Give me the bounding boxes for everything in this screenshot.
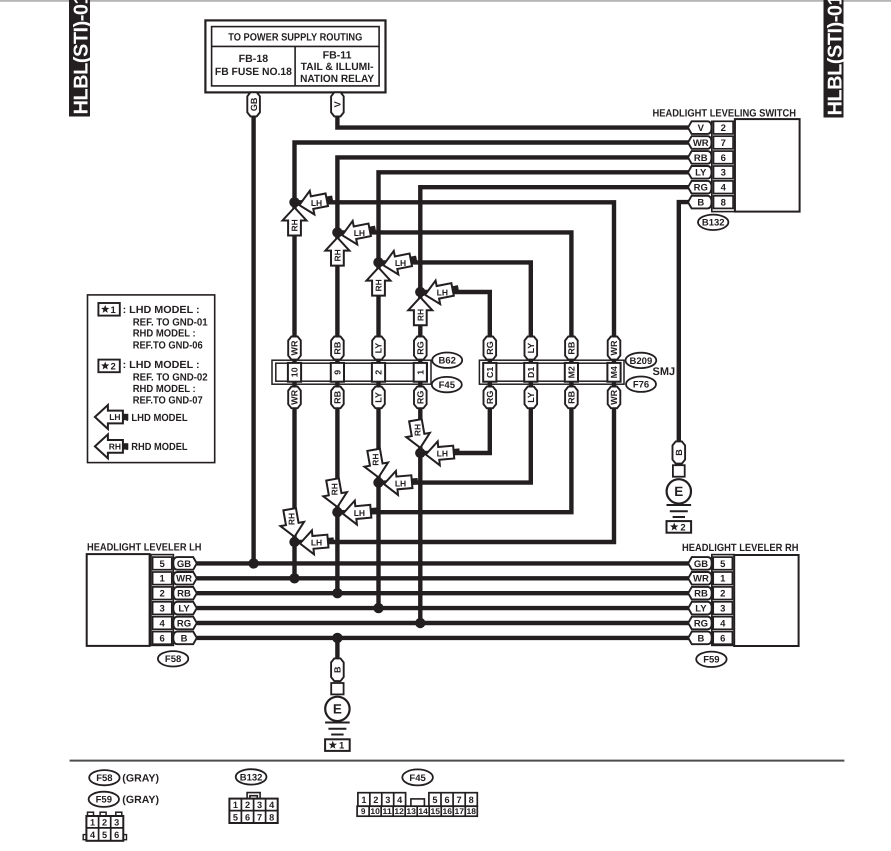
svg-text:2: 2 [373,795,378,805]
svg-text:6: 6 [720,633,725,644]
svg-text:LH: LH [109,412,120,422]
svg-text:4: 4 [397,795,403,805]
svg-text:5: 5 [233,812,238,822]
svg-text:15: 15 [430,807,440,816]
svg-text:LH: LH [395,478,406,488]
svg-text:17: 17 [455,807,465,816]
svg-text:HLBL(STI)-01: HLBL(STI)-01 [825,0,847,116]
svg-text:1: 1 [720,574,726,585]
svg-text:3: 3 [385,795,390,805]
svg-text:RG: RG [694,183,708,194]
svg-text:8: 8 [269,812,274,822]
svg-text:2: 2 [160,589,165,600]
svg-text:B: B [333,666,343,673]
svg-text:NATION RELAY: NATION RELAY [300,73,374,85]
svg-text:WR: WR [176,574,192,585]
svg-text:: RHD MODEL: : RHD MODEL [126,442,189,453]
svg-text:LH: LH [354,508,365,518]
svg-text:LY: LY [526,343,536,354]
svg-text:B: B [674,449,684,456]
svg-text:RHD MODEL :: RHD MODEL : [133,329,196,340]
svg-text:LY: LY [374,392,384,403]
svg-text:M4: M4 [609,366,619,378]
svg-text:7: 7 [257,812,262,822]
svg-text:1: 1 [90,817,95,827]
svg-text:(GRAY): (GRAY) [122,794,159,806]
svg-text:F59: F59 [703,655,719,666]
svg-text:RG: RG [177,618,191,629]
svg-text:16: 16 [442,807,452,816]
svg-text:2: 2 [680,522,685,533]
svg-text:3: 3 [160,604,165,615]
svg-text:2: 2 [720,589,725,600]
svg-text:6: 6 [160,633,165,644]
svg-text:REF.TO GND-06: REF.TO GND-06 [133,340,203,351]
svg-text:REF. TO GND-02: REF. TO GND-02 [133,373,208,384]
svg-text:: LHD MODEL: : LHD MODEL [126,413,189,424]
svg-text:2: 2 [102,817,107,827]
svg-text:V: V [333,101,343,107]
svg-text:RG: RG [485,391,495,405]
svg-text:RH: RH [412,424,422,436]
svg-text:SMJ: SMJ [652,366,675,378]
svg-text:WR: WR [290,389,300,404]
svg-text:WR: WR [609,389,619,404]
svg-text:FB-18: FB-18 [239,53,269,65]
svg-text:B: B [181,633,188,644]
svg-text:LH: LH [311,198,322,208]
svg-text:F76: F76 [633,380,649,391]
svg-text:2: 2 [111,362,116,373]
svg-text:LY: LY [695,604,707,615]
svg-text:13: 13 [406,807,416,816]
svg-text:8: 8 [469,795,474,805]
svg-text:6: 6 [245,812,250,822]
svg-text:GB: GB [249,97,259,111]
svg-text:HEADLIGHT LEVELER LH: HEADLIGHT LEVELER LH [87,541,202,553]
svg-text:C1: C1 [485,367,495,378]
svg-text:14: 14 [418,807,428,816]
svg-text:2: 2 [721,123,726,134]
svg-text:RB: RB [694,589,708,600]
svg-text:1: 1 [111,305,117,316]
svg-text:FB FUSE NO.18: FB FUSE NO.18 [215,66,292,78]
svg-text:7: 7 [721,138,726,149]
svg-text:RH: RH [415,309,425,321]
svg-text:REF. TO GND-01: REF. TO GND-01 [133,317,208,328]
svg-text:RH: RH [371,453,381,465]
svg-text:6: 6 [444,795,449,805]
svg-text:F45: F45 [439,380,456,391]
svg-text:TAIL & ILLUMI-: TAIL & ILLUMI- [301,61,374,73]
svg-text:FB-11: FB-11 [323,50,352,62]
svg-text:REF.TO GND-07: REF.TO GND-07 [133,396,203,407]
svg-text:3: 3 [720,604,725,615]
svg-text:RB: RB [567,341,577,354]
svg-text:4: 4 [90,830,96,840]
svg-text:GB: GB [694,559,708,570]
svg-text:6: 6 [114,830,119,840]
svg-text:3: 3 [721,168,726,179]
svg-text:2: 2 [245,800,250,810]
svg-text:WR: WR [693,574,709,585]
svg-text:LY: LY [178,604,190,615]
svg-text:: LHD MODEL :: : LHD MODEL : [123,360,200,371]
svg-text:RH: RH [374,279,384,291]
svg-text:RB: RB [567,390,577,403]
svg-text:12: 12 [394,807,404,816]
svg-text:9: 9 [361,807,366,816]
svg-text:F45: F45 [409,773,426,784]
svg-text:3: 3 [114,817,119,827]
svg-text:RG: RG [416,341,426,355]
svg-text:WR: WR [290,340,300,355]
svg-text:5: 5 [432,795,437,805]
svg-text:6: 6 [721,153,726,164]
svg-text:E: E [674,484,683,499]
svg-text:RB: RB [333,341,343,354]
svg-text:3: 3 [257,800,262,810]
svg-text:LY: LY [374,343,384,354]
svg-text:TO POWER SUPPLY ROUTING: TO POWER SUPPLY ROUTING [228,31,362,43]
svg-text:B209: B209 [630,356,653,367]
svg-text:M2: M2 [567,366,577,378]
svg-text:11: 11 [382,807,392,816]
svg-text:9: 9 [333,370,343,375]
svg-text:F58: F58 [165,654,181,665]
svg-text:RB: RB [694,153,708,164]
svg-text:HEADLIGHT LEVELER RH: HEADLIGHT LEVELER RH [682,542,799,554]
svg-text:WR: WR [693,138,709,149]
svg-text:: LHD MODEL :: : LHD MODEL : [123,305,200,316]
svg-text:HEADLIGHT LEVELING SWITCH: HEADLIGHT LEVELING SWITCH [653,108,797,120]
svg-text:5: 5 [160,559,166,570]
svg-text:LH: LH [354,228,365,238]
svg-text:F58: F58 [96,773,112,784]
svg-text:LH: LH [437,288,448,298]
svg-text:4: 4 [160,618,166,629]
svg-text:F59: F59 [96,795,112,806]
svg-text:B132: B132 [240,772,263,783]
svg-text:RB: RB [177,589,191,600]
svg-text:E: E [333,702,342,717]
svg-text:RH: RH [290,219,300,231]
svg-text:B: B [697,198,704,209]
svg-text:1: 1 [160,574,166,585]
svg-text:8: 8 [721,198,726,209]
svg-text:RH: RH [332,249,342,261]
svg-text:4: 4 [721,183,727,194]
svg-text:4: 4 [269,800,275,810]
svg-text:GB: GB [177,559,191,570]
svg-text:LH: LH [437,449,448,459]
svg-text:(GRAY): (GRAY) [122,773,159,785]
svg-text:1: 1 [233,800,238,810]
svg-text:B62: B62 [438,356,455,367]
svg-text:1: 1 [339,741,345,752]
svg-text:LH: LH [395,258,406,268]
svg-text:2: 2 [374,370,384,375]
svg-text:10: 10 [290,367,300,377]
svg-text:RHD MODEL :: RHD MODEL : [133,384,196,395]
svg-text:D1: D1 [526,367,536,378]
svg-text:4: 4 [720,618,726,629]
svg-text:RB: RB [333,390,343,403]
svg-text:B: B [698,633,705,644]
svg-text:HLBL(STI)-01: HLBL(STI)-01 [71,0,93,115]
svg-text:RH: RH [287,513,297,525]
svg-text:7: 7 [457,795,462,805]
svg-text:RG: RG [485,341,495,355]
svg-text:WR: WR [609,340,619,355]
svg-text:V: V [698,123,705,134]
svg-text:18: 18 [467,807,477,816]
svg-text:RG: RG [416,391,426,405]
svg-text:RG: RG [694,618,708,629]
svg-text:LY: LY [695,168,707,179]
svg-text:RH: RH [329,483,339,495]
svg-text:10: 10 [370,807,380,816]
svg-text:LH: LH [311,538,322,548]
svg-text:5: 5 [102,830,107,840]
svg-text:B132: B132 [702,218,725,229]
svg-text:RH: RH [109,441,121,451]
svg-text:LY: LY [526,392,536,403]
svg-text:5: 5 [720,559,726,570]
svg-text:1: 1 [361,795,366,805]
svg-text:1: 1 [415,370,425,375]
